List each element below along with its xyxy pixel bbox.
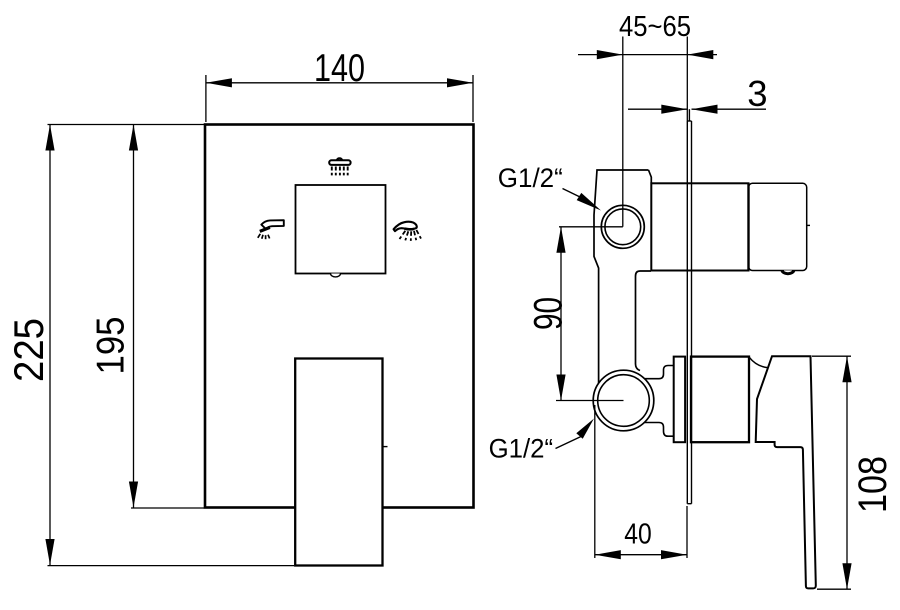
svg-text:G1/2“: G1/2“ xyxy=(498,163,563,193)
valve body outline xyxy=(594,170,649,383)
small tick on handle right edge xyxy=(383,446,388,448)
svg-text:3: 3 xyxy=(747,73,767,114)
dimension 195 (inner left) xyxy=(131,125,204,509)
dimension 108 (right) xyxy=(812,356,851,589)
top housing rectangle (left part) xyxy=(651,183,748,270)
tick on right edge xyxy=(807,224,810,226)
dimension 140 (top) xyxy=(206,75,473,122)
svg-text:140: 140 xyxy=(314,47,365,90)
cartridge body (right of wall) xyxy=(691,357,749,443)
extension line top-left (plate top to 225/195 dims) xyxy=(48,124,205,126)
divider line xyxy=(747,183,749,270)
svg-text:90: 90 xyxy=(527,297,571,330)
svg-text:108: 108 xyxy=(851,456,895,513)
dimension 3 (wall plate thickness) xyxy=(628,108,766,110)
body top-right chamfer xyxy=(649,170,652,183)
nub under inner square xyxy=(331,274,341,277)
svg-text:225: 225 xyxy=(5,318,52,382)
handle lever (front view, vertical) xyxy=(295,359,382,566)
handle (side view) xyxy=(756,356,816,588)
dimension 225 (far left) xyxy=(48,125,295,566)
svg-text:G1/2“: G1/2“ xyxy=(489,433,553,463)
wall plate (side view, thin) xyxy=(687,109,691,504)
top port circle G1/2 xyxy=(601,205,644,248)
icon: rain shower (top) xyxy=(329,158,350,175)
handle escutcheon arc xyxy=(749,357,768,368)
nub under top housing xyxy=(780,270,795,275)
svg-text:195: 195 xyxy=(90,317,133,375)
diverter inner square xyxy=(296,185,386,274)
top housing rectangle (right rounded part) xyxy=(749,183,807,270)
dimension 40 (bottom) xyxy=(595,405,687,558)
cartridge flange (between body and wall) xyxy=(674,357,685,443)
dimension 45~65 (top) xyxy=(578,37,717,227)
svg-text:45~65: 45~65 xyxy=(619,11,691,43)
lower shoulder piece right of bottom port xyxy=(641,366,674,437)
leader top xyxy=(563,189,581,198)
bottom port circle G1/2 xyxy=(593,370,654,431)
svg-text:40: 40 xyxy=(624,519,652,551)
front plate (escutcheon) outline xyxy=(205,125,474,508)
icon: spray hand shower right xyxy=(394,222,421,241)
body narrowed right edge between ports xyxy=(636,271,652,371)
dimension 90 (between ports) xyxy=(556,227,624,401)
icon: hand shower left xyxy=(258,220,284,239)
leader bottom xyxy=(556,437,582,449)
